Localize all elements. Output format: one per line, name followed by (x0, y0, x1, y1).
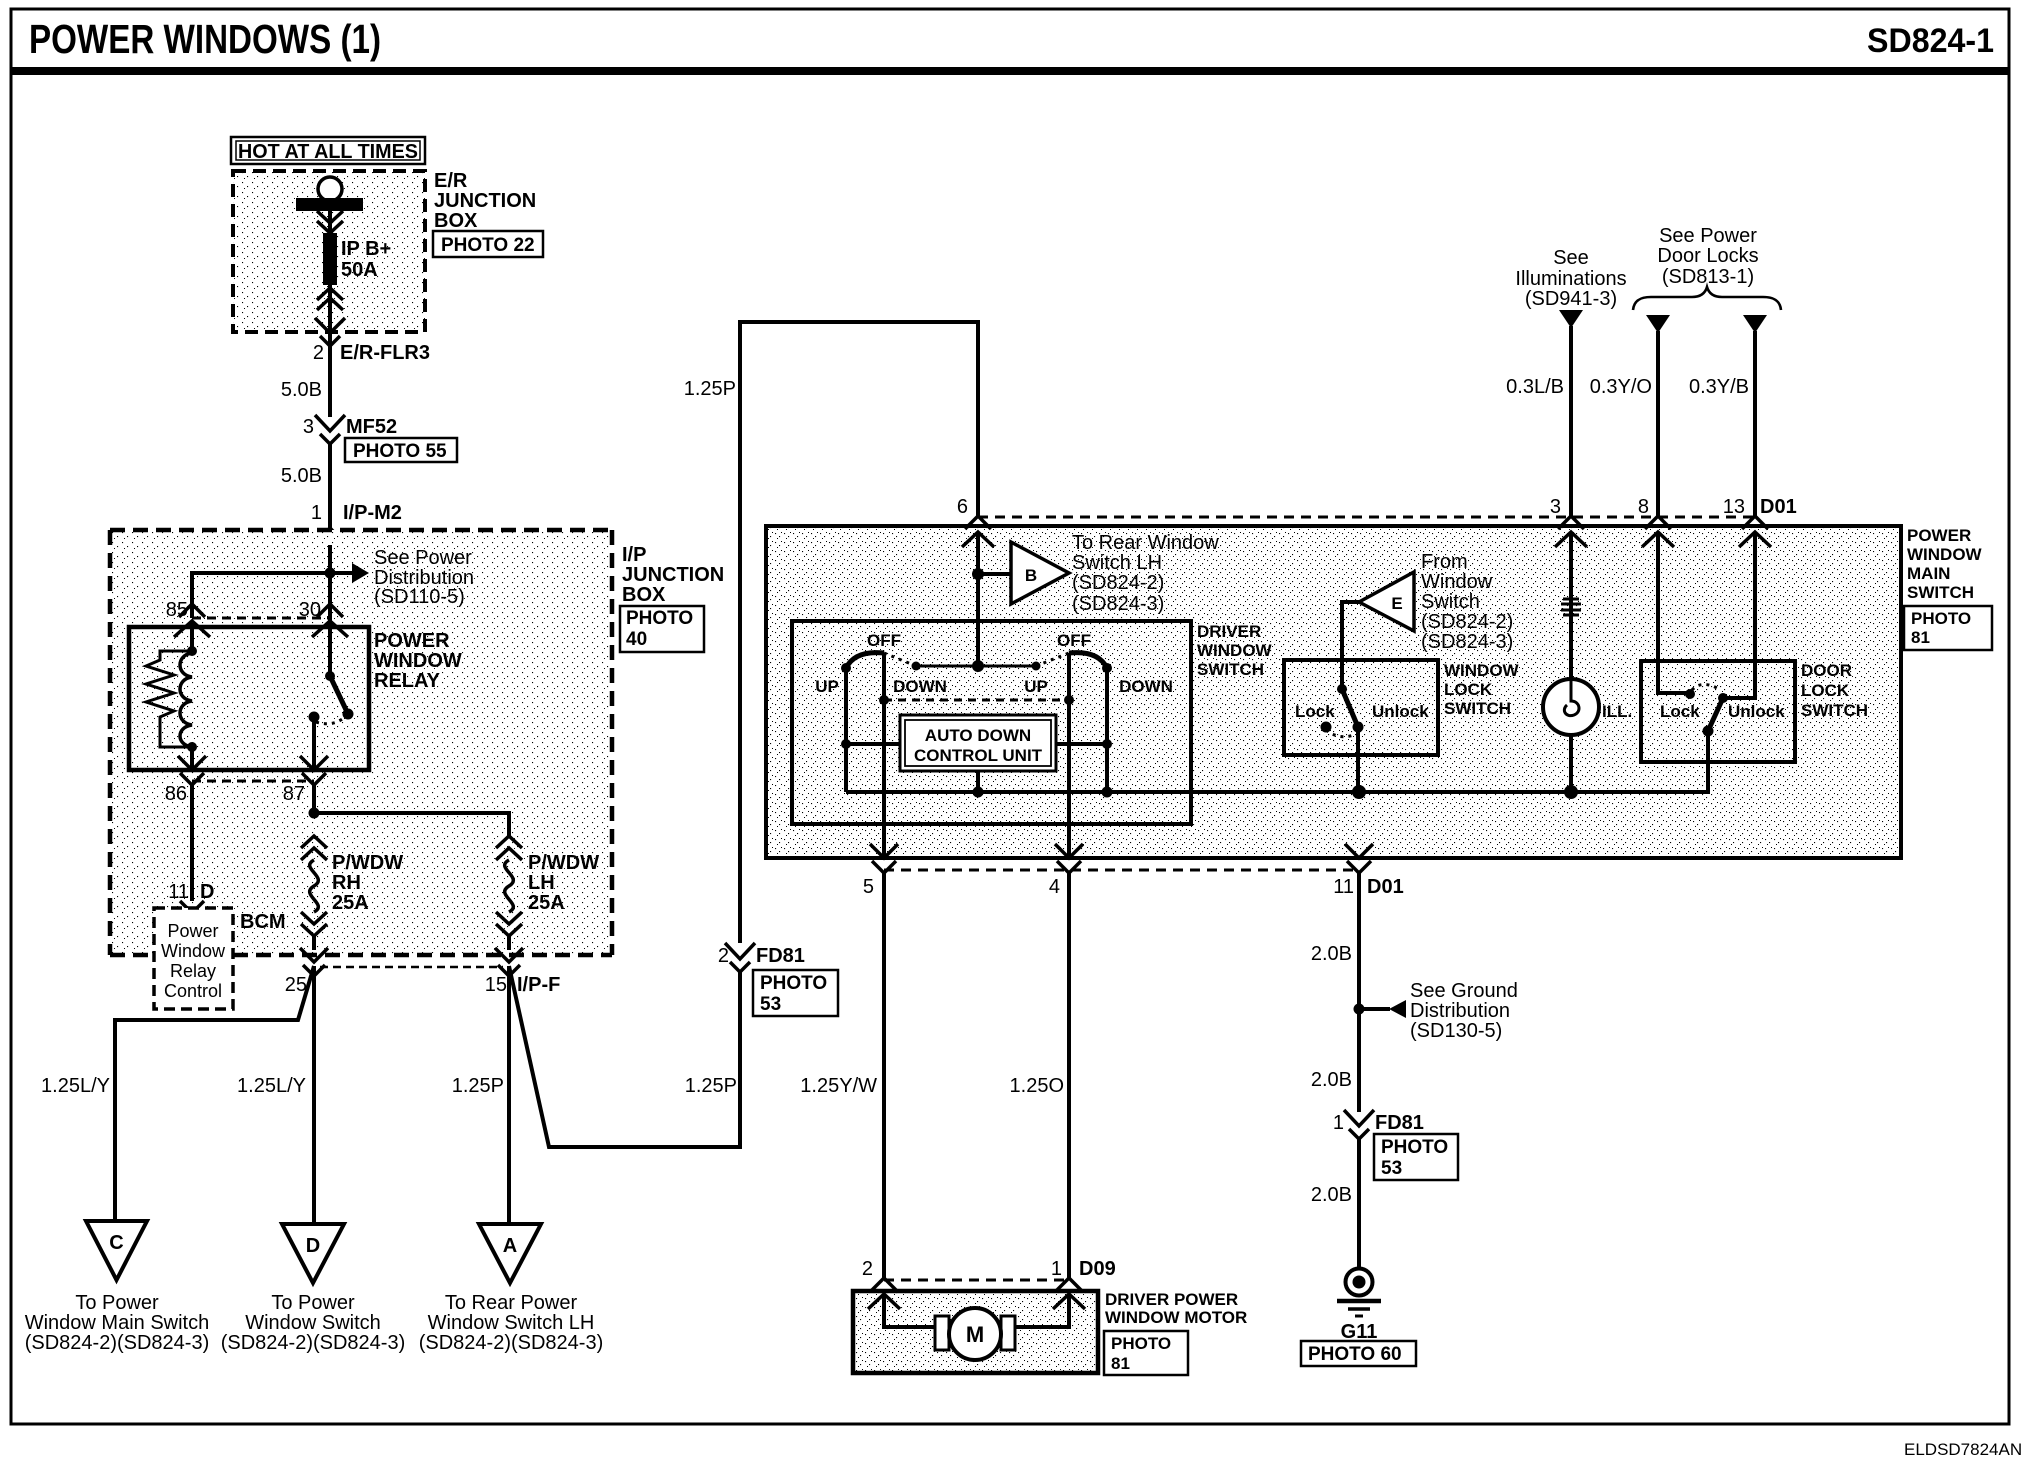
window lock switch label (1444, 661, 1520, 718)
connector FD81 chevrons (2) (725, 943, 755, 972)
ground G11 symbol (1337, 1269, 1381, 1317)
svg-text:UP: UP (1024, 677, 1048, 696)
wire junction to LH fuse branch (314, 813, 509, 836)
svg-text:2: 2 (313, 342, 324, 364)
svg-text:1.25Y/W: 1.25Y/W (800, 1075, 877, 1097)
PHOTO 53 box (FD81) (1374, 1134, 1458, 1180)
pin 11 D label (168, 881, 214, 903)
svg-text:WINDOW: WINDOW (1907, 545, 1983, 564)
connector MF52 chevrons (315, 415, 345, 444)
wire node to pin 85 (192, 573, 330, 618)
svg-text:I/P: I/P (622, 544, 646, 566)
pin 15 chevrons (495, 948, 523, 976)
dashed connector line pins 86-87 (192, 780, 314, 783)
svg-text:D01: D01 (1367, 876, 1404, 898)
auto down control unit box (900, 715, 1056, 771)
wire pin 15 to A (507, 966, 511, 1224)
svg-text:(SD824-2)(SD824-3): (SD824-2)(SD824-3) (221, 1332, 406, 1354)
wire FD81 to ground G11 (1357, 1139, 1361, 1269)
pin 4 arrows (1055, 844, 1083, 873)
wire left UP contact down (844, 668, 848, 792)
svg-text:1.25P: 1.25P (452, 1075, 504, 1097)
relay coil (180, 653, 192, 747)
pin 3 label / net MF52 (303, 416, 397, 438)
wire pin 11 to ground (1357, 873, 1361, 1112)
svg-text:I/P-M2: I/P-M2 (343, 502, 402, 524)
pin 1 entry chevrons into I/P box (314, 528, 346, 560)
wire window lock to bus (1356, 727, 1360, 792)
wire E to window lock common (1342, 602, 1359, 689)
svg-text:(SD824-2)(SD824-3): (SD824-2)(SD824-3) (25, 1332, 210, 1354)
fuse P/WDW RH chevrons bottom (301, 912, 327, 936)
PHOTO 55 box (345, 438, 457, 462)
wire MF52 to I/P box (328, 444, 332, 530)
I/P junction box fill (110, 530, 612, 955)
svg-text:81: 81 (1111, 1354, 1130, 1373)
door lock switch label (1801, 661, 1868, 720)
svg-text:See Ground: See Ground (1410, 980, 1518, 1002)
pin 1 label / net FD81 (1333, 1112, 1424, 1134)
svg-text:PHOTO 55: PHOTO 55 (353, 441, 447, 462)
svg-text:Switch: Switch (1421, 591, 1480, 613)
pin 11 chevrons into BCM (180, 901, 204, 924)
PHOTO 53 box (753, 970, 838, 1016)
svg-text:Window: Window (1421, 571, 1493, 593)
wire coil to pin 86 (190, 747, 194, 770)
left switch UP contact dot (841, 663, 851, 673)
fuse P/WDW RH element (310, 860, 319, 912)
svg-text:BCM: BCM (240, 911, 286, 933)
node B branch dot (972, 568, 984, 580)
wire auto-down left (846, 742, 900, 746)
pin 13 label / connector D01 (1723, 496, 1797, 518)
svg-text:5.0B: 5.0B (281, 379, 322, 401)
svg-text:POWER: POWER (374, 630, 450, 652)
wire 0.3L/B to pin 3 (1569, 326, 1573, 517)
pin 85 chevrons (174, 604, 210, 637)
svg-text:E: E (1391, 594, 1402, 613)
svg-text:2: 2 (862, 1258, 873, 1280)
wire pin 13 to door lock Unlock contact (1723, 532, 1755, 698)
svg-text:Power: Power (167, 921, 218, 941)
svg-text:Control: Control (164, 981, 222, 1001)
svg-text:11: 11 (1333, 876, 1354, 898)
see illuminations text (1515, 247, 1626, 310)
svg-text:SWITCH: SWITCH (1444, 699, 1511, 718)
see power door locks text (1657, 225, 1758, 288)
svg-text:WINDOW: WINDOW (1197, 641, 1273, 660)
dashed connector line pins 25-15 (320, 966, 503, 969)
svg-text:P/WDW: P/WDW (332, 852, 403, 874)
wire pin2 to MF52 (328, 333, 332, 417)
connector triangle C (86, 1221, 147, 1280)
svg-text:0.3Y/B: 0.3Y/B (1689, 376, 1749, 398)
left switch dotted link (884, 653, 916, 666)
wire right DOWN contact down (1105, 668, 1109, 792)
wire left OFF to pin 5 (882, 653, 886, 858)
svg-text:To Power: To Power (75, 1292, 159, 1314)
svg-text:PHOTO 60: PHOTO 60 (1308, 1344, 1402, 1365)
svg-text:D: D (306, 1235, 320, 1257)
wire pin 87 to junction (312, 785, 316, 813)
svg-text:PHOTO 22: PHOTO 22 (441, 235, 535, 256)
wire pin 4 to motor pin 1 (1067, 873, 1071, 1278)
brace over door lock wires (1633, 287, 1781, 310)
svg-text:1.25L/Y: 1.25L/Y (237, 1075, 306, 1097)
bus dot window lock (1352, 785, 1366, 799)
power window relay box (129, 627, 369, 770)
svg-text:C: C (109, 1232, 123, 1254)
svg-text:HOT AT ALL TIMES: HOT AT ALL TIMES (238, 141, 418, 163)
driver window switch box (792, 621, 1191, 824)
svg-text:DOWN: DOWN (893, 677, 947, 696)
svg-text:WINDOW: WINDOW (374, 650, 462, 672)
relay arm end dot (343, 709, 354, 720)
wire DOWN contact to center (916, 665, 978, 668)
BCM box (dashed) (154, 908, 233, 1009)
wire 0.3Y/B to pin 13 (1753, 331, 1757, 517)
svg-text:0.3L/B: 0.3L/B (1506, 376, 1564, 398)
pin 11 label / connector D01 (1333, 876, 1403, 898)
connector chevrons below fuse (317, 288, 343, 310)
door lock arm end dot (1703, 726, 1714, 737)
svg-text:SWITCH: SWITCH (1907, 583, 1974, 602)
svg-text:MF52: MF52 (346, 416, 397, 438)
svg-text:8: 8 (1638, 496, 1649, 518)
svg-text:RELAY: RELAY (374, 670, 441, 692)
svg-text:53: 53 (760, 994, 781, 1015)
window lock Lock contact dot (1321, 722, 1332, 733)
relay switch dotted travel arc (316, 714, 348, 724)
fuse P/WDW LH chevrons top (496, 836, 522, 860)
svg-text:UP: UP (815, 677, 839, 696)
title rule (12, 67, 2009, 75)
pin 2 label / net FD81 (718, 945, 805, 967)
svg-text:Window Main Switch: Window Main Switch (25, 1312, 210, 1334)
motor pin 1 chevrons (1053, 1278, 1085, 1309)
svg-text:SD824-1: SD824-1 (1867, 22, 1994, 60)
driver power window motor box (853, 1291, 1098, 1373)
feed arrow door lock wire 13 (1743, 315, 1767, 333)
svg-text:(SD824-2)(SD824-3): (SD824-2)(SD824-3) (419, 1332, 604, 1354)
wire contact to pin 87 (312, 717, 316, 770)
wire right OFF to pin 4 (1067, 653, 1071, 858)
svg-text:To Rear Power: To Rear Power (445, 1292, 578, 1314)
svg-text:FD81: FD81 (1375, 1112, 1424, 1134)
pin 2 exit chevrons of E/R box (315, 318, 345, 346)
svg-text:Unlock: Unlock (1372, 702, 1429, 721)
wire lamp to bus (1569, 735, 1573, 792)
svg-text:CONTROL UNIT: CONTROL UNIT (914, 746, 1043, 765)
ground bus wire (846, 731, 1708, 792)
svg-text:PHOTO: PHOTO (1111, 1334, 1171, 1353)
relay switch arm (330, 676, 348, 714)
see ground distribution text (1410, 980, 1518, 1042)
pin 30 chevrons (312, 604, 348, 637)
bus bar (296, 198, 363, 211)
wire bar to fuse (328, 208, 332, 234)
svg-text:DRIVER: DRIVER (1197, 622, 1261, 641)
svg-text:SWITCH: SWITCH (1197, 660, 1264, 679)
wire RH fuse to pin 25 (312, 936, 316, 950)
connector triangle A (479, 1224, 541, 1283)
see power distribution text (374, 547, 474, 608)
svg-text:(SD824-2): (SD824-2) (1421, 611, 1513, 633)
svg-text:DRIVER POWER: DRIVER POWER (1105, 1290, 1238, 1309)
svg-text:D: D (200, 881, 214, 903)
relay switch pivot dot (325, 671, 335, 681)
window lock arm (1342, 689, 1358, 727)
svg-text:(SD824-3): (SD824-3) (1421, 631, 1513, 653)
destination text D (221, 1292, 406, 1354)
svg-text:WINDOW MOTOR: WINDOW MOTOR (1105, 1308, 1247, 1327)
svg-text:To Power: To Power (271, 1292, 355, 1314)
pin 15 label / net I/P-F (485, 974, 561, 996)
svg-text:Window Switch LH: Window Switch LH (428, 1312, 595, 1334)
power window main switch label (1907, 526, 1983, 602)
motor internal wire left (884, 1294, 937, 1327)
svg-text:87: 87 (283, 783, 305, 805)
destination text A (419, 1292, 604, 1354)
svg-text:BOX: BOX (622, 584, 666, 606)
I/P junction box label (622, 544, 724, 606)
svg-text:2.0B: 2.0B (1311, 1069, 1352, 1091)
see ground distribution arrow (1359, 1000, 1406, 1018)
fuse P/WDW LH element (505, 860, 514, 912)
door lock Lock contact dot (1685, 689, 1695, 699)
svg-text:25: 25 (285, 974, 307, 996)
svg-text:JUNCTION: JUNCTION (622, 564, 724, 586)
wire auto-down bottom stub (976, 771, 980, 792)
window lock arm end dot (1353, 722, 1364, 733)
junction dot auto-down right (1102, 739, 1112, 749)
I/P junction box dashed border (110, 530, 612, 955)
pin 86 chevrons (178, 756, 206, 785)
pin 8 chevrons (1642, 516, 1674, 547)
svg-text:13: 13 (1723, 496, 1745, 518)
wire center to right DOWN contact (978, 665, 1036, 668)
svg-text:POWER WINDOWS (1): POWER WINDOWS (1) (29, 16, 381, 62)
relay contact 87 dot (309, 712, 320, 723)
svg-text:1.25P: 1.25P (685, 1075, 737, 1097)
svg-text:SWITCH: SWITCH (1801, 701, 1868, 720)
svg-text:IP B+: IP B+ (341, 238, 391, 260)
svg-text:2.0B: 2.0B (1311, 943, 1352, 965)
motor internal wire right (1013, 1294, 1069, 1327)
wire pin1 down to node (328, 545, 332, 631)
coil top node dot (187, 646, 197, 656)
left switch DOWN contact dot (912, 662, 921, 671)
fuse IP B+ 50A body (323, 233, 337, 285)
svg-text:50A: 50A (341, 259, 378, 281)
svg-text:ELDSD7824AN: ELDSD7824AN (1904, 1440, 2022, 1459)
svg-text:POWER: POWER (1907, 526, 1971, 545)
wire LH fuse to pin 15 (507, 936, 511, 950)
wire fuse to box exit (328, 285, 332, 332)
motor brush left (935, 1316, 949, 1350)
right switch arm arc (1069, 653, 1107, 668)
E/R junction box (dashed) (233, 171, 425, 332)
svg-text:E/R-FLR3: E/R-FLR3 (340, 342, 430, 364)
svg-text:PHOTO: PHOTO (626, 608, 693, 629)
fuse P/WDW LH 25A label (528, 852, 599, 914)
wire pin 8 to door lock Lock contact (1658, 532, 1690, 693)
svg-text:DOOR: DOOR (1801, 661, 1852, 680)
wire pin 6 to driver switch (976, 532, 980, 666)
svg-text:I/P-F: I/P-F (517, 974, 560, 996)
svg-text:(SD110-5): (SD110-5) (374, 586, 465, 608)
wire auto-down right (1056, 742, 1107, 746)
door lock switch box (1641, 661, 1795, 762)
svg-text:(SD941-3): (SD941-3) (1525, 288, 1617, 310)
svg-text:LOCK: LOCK (1444, 680, 1493, 699)
svg-text:1: 1 (1051, 1258, 1062, 1280)
motor pin 2 chevrons (868, 1278, 900, 1309)
svg-text:1: 1 (1333, 1112, 1344, 1134)
right switch UP contact dot (1032, 662, 1041, 671)
svg-text:Relay: Relay (170, 961, 216, 981)
connector chevrons below bus bar (317, 211, 343, 233)
svg-text:Unlock: Unlock (1728, 702, 1785, 721)
svg-text:5: 5 (863, 876, 874, 898)
bus dot illumination (1564, 785, 1578, 799)
ground distribution node dot (1354, 1004, 1365, 1015)
pin 87 chevrons (300, 756, 328, 785)
svg-text:Distribution: Distribution (1410, 1000, 1510, 1022)
svg-text:40: 40 (626, 629, 647, 650)
relay coil wire from pin 85 (190, 621, 194, 653)
bus dot auto-down (973, 787, 984, 798)
fuse label IP B+ 50A (341, 238, 391, 281)
svg-text:See Power: See Power (1659, 225, 1757, 247)
svg-text:G11: G11 (1341, 1321, 1378, 1343)
svg-text:MAIN: MAIN (1907, 564, 1950, 583)
svg-text:PHOTO: PHOTO (1911, 609, 1971, 628)
svg-text:PHOTO: PHOTO (760, 973, 827, 994)
wire pin 3 to illumination (1569, 532, 1573, 680)
pin 2 label / net E/R-FLR3 (313, 342, 430, 364)
svg-text:3: 3 (303, 416, 314, 438)
svg-text:M: M (966, 1322, 984, 1347)
svg-text:RH: RH (332, 872, 361, 894)
pin 6 chevrons (962, 516, 994, 547)
svg-text:E/R: E/R (434, 170, 468, 192)
svg-text:Lock: Lock (1295, 702, 1335, 721)
svg-text:Window: Window (161, 941, 226, 961)
wire pin 5 to motor pin 2 (882, 873, 886, 1278)
svg-text:D09: D09 (1079, 1258, 1116, 1280)
node junction dot (325, 568, 336, 579)
wire pin 30 into relay (328, 621, 332, 676)
svg-text:4: 4 (1049, 876, 1060, 898)
pin 5 arrows (870, 844, 898, 873)
wire pin 86 to BCM pin 11 (190, 785, 194, 901)
svg-text:Lock: Lock (1660, 702, 1700, 721)
svg-text:Switch LH: Switch LH (1072, 552, 1162, 574)
connector D01 bottom dashed line (884, 869, 1359, 872)
motor pin 1 label / connector D09 (1051, 1258, 1116, 1280)
PHOTO 81 box (motor) (1104, 1331, 1188, 1375)
connector FD81 chevrons (1) (1344, 1110, 1374, 1139)
wire pin 15 branch to FD81 (509, 966, 740, 1147)
pin 13 chevrons (1739, 516, 1771, 547)
dashed connector line pins 85-30 (192, 617, 330, 620)
svg-text:6: 6 (957, 496, 968, 518)
svg-text:JUNCTION: JUNCTION (434, 190, 536, 212)
svg-text:LOCK: LOCK (1801, 681, 1850, 700)
fuse P/WDW RH chevrons top (301, 836, 327, 860)
svg-text:OFF: OFF (867, 631, 901, 650)
svg-text:2: 2 (718, 945, 729, 967)
svg-text:25A: 25A (528, 892, 565, 914)
pin 25 chevrons (300, 948, 328, 976)
svg-text:PHOTO: PHOTO (1381, 1137, 1448, 1158)
wire 0.3Y/O to pin 8 (1656, 331, 1660, 517)
battery feed terminal circle (318, 177, 342, 201)
BCM power window relay control text (161, 921, 226, 1001)
svg-text:(SD130-5): (SD130-5) (1410, 1020, 1502, 1042)
svg-text:(SD813-1): (SD813-1) (1662, 266, 1754, 288)
mechanical link dashed (884, 699, 1069, 702)
bus dot right DOWN (1102, 787, 1113, 798)
connector triangle B (1011, 542, 1069, 604)
center common dot (972, 660, 984, 672)
svg-text:53: 53 (1381, 1158, 1402, 1179)
right switch dotted link (1036, 653, 1069, 666)
wire pin 25 branch to C (115, 966, 314, 1221)
HOT AT ALL TIMES box (231, 137, 425, 164)
feed arrow illumination wire (1559, 310, 1583, 328)
svg-text:WINDOW: WINDOW (1444, 661, 1520, 680)
E/R junction box label (434, 170, 536, 232)
svg-text:OFF: OFF (1057, 631, 1091, 650)
PHOTO 40 box (620, 606, 704, 652)
junction dot 87 branch (309, 808, 320, 819)
pin 1 label / net I/P-M2 (311, 502, 402, 524)
right switch DOWN contact dot (1102, 663, 1112, 673)
motor M (949, 1308, 1001, 1360)
svg-text:5.0B: 5.0B (281, 465, 322, 487)
door lock arm (1708, 698, 1723, 731)
svg-text:B: B (1025, 566, 1037, 585)
svg-text:FD81: FD81 (756, 945, 805, 967)
svg-text:11: 11 (168, 881, 189, 903)
PHOTO 60 box (1301, 1341, 1416, 1366)
driver power window motor label (1105, 1290, 1247, 1327)
door lock Unlock contact dot (1718, 693, 1728, 703)
svg-text:P/WDW: P/WDW (528, 852, 599, 874)
pin 3 chevrons (1555, 516, 1587, 547)
mech link dot left (879, 695, 889, 705)
svg-text:(SD824-2): (SD824-2) (1072, 572, 1164, 594)
svg-text:0.3Y/O: 0.3Y/O (1590, 376, 1652, 398)
motor brush right (1001, 1316, 1015, 1350)
svg-text:BOX: BOX (434, 210, 478, 232)
connector D01 dashed line (978, 516, 1755, 519)
svg-text:1: 1 (311, 502, 322, 524)
left switch arm arc (846, 653, 884, 668)
connector D09 dashed line (884, 1279, 1069, 1282)
svg-text:Door Locks: Door Locks (1657, 245, 1758, 267)
feed arrow door lock wire 8 (1646, 315, 1670, 333)
power window relay label (374, 630, 462, 692)
svg-text:2.0B: 2.0B (1311, 1184, 1352, 1206)
svg-text:A: A (503, 1235, 517, 1257)
driver window switch label (1197, 622, 1273, 679)
svg-text:DOWN: DOWN (1119, 677, 1173, 696)
connector triangle E (1359, 572, 1414, 631)
window lock dotted travel arc (1326, 730, 1356, 737)
